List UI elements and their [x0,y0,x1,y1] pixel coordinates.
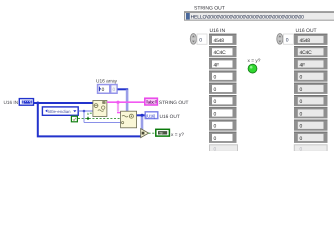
panel STRING OUT label [194,6,225,12]
svg-text:4C4C: 4C4C [214,50,227,56]
node junction enum wire [83,110,86,113]
terminal U16 OUT [145,112,158,119]
terminal STRING OUT [145,98,158,105]
svg-text:little-endian: little-endian [48,109,71,114]
svg-text:4F: 4F [300,62,306,68]
svg-text:4548: 4548 [300,38,311,44]
node U16 OUT label [160,114,180,120]
wire equal result (green dashed) [149,132,156,134]
node junction U16 IN wire [36,102,39,105]
boolean constant F [71,116,77,122]
svg-text:abc: abc [148,100,155,105]
node STRING OUT label [159,100,189,106]
wire U16 IN branch down to Equal y input [38,103,141,136]
svg-text:4F: 4F [214,62,220,68]
svg-text:0: 0 [214,99,217,105]
panel LED label x=y? [248,58,261,64]
svg-text:0: 0 [214,111,217,117]
svg-text:0: 0 [300,124,303,130]
enum constant little-endian [42,107,78,115]
op U1 Flatten To String [93,101,107,117]
svg-text:0: 0 [300,147,303,152]
panel U16 OUT index box [284,34,294,44]
wire boolean dashed [78,113,121,118]
svg-text:U16 IN: U16 IN [210,28,226,34]
svg-text:0: 0 [113,87,116,93]
wire branch down to Equal x input [141,116,144,130]
svg-text:0: 0 [199,37,202,43]
svg-text:4548: 4548 [214,38,225,44]
wire string branch down to Unflatten [117,103,121,113]
svg-text:U16 array: U16 array [96,78,118,84]
op U2 Unflatten From String [121,111,137,128]
svg-text:4C4C: 4C4C [300,50,313,56]
node junction boolean wire [87,117,89,119]
svg-text:0: 0 [214,124,217,130]
wire flattened string (pink) [107,101,145,103]
op Equal? [141,129,149,138]
panel U16 IN index spinner [190,34,196,45]
terminal U16 IN (array control, thick border) [19,99,33,106]
svg-text:0: 0 [300,111,303,117]
panel U16 IN index box [197,34,207,44]
node x=y? label [171,132,184,138]
svg-text:0: 0 [102,87,105,93]
node U16 IN label [4,100,19,105]
svg-text:STRING OUT: STRING OUT [194,6,225,12]
svg-text:HELLO\00\00\00\00\00\00\00\00\: HELLO\00\00\00\00\00\00\00\00\00\00\00\0… [191,14,305,20]
svg-text:0: 0 [300,99,303,105]
panel LED x=y? [248,64,257,73]
svg-text:0: 0 [214,136,217,142]
wire U16 array out (thick blue) [137,114,145,116]
svg-text:U16 OUT: U16 OUT [296,28,317,34]
terminal x=y? boolean [156,129,170,136]
svg-text:x = y?: x = y? [171,132,184,138]
svg-text:x = y?: x = y? [248,58,261,64]
panel STRING OUT indicator box [185,12,334,21]
wire U16 IN main (thick blue to Flatten) [34,102,93,104]
panel U16 IN array cells [209,34,238,153]
svg-text:0: 0 [286,37,289,43]
svg-text:0: 0 [300,136,303,142]
panel U16 IN label [210,28,226,34]
panel U16 OUT label [296,28,317,34]
svg-text:U16 OUT: U16 OUT [160,114,180,120]
svg-text:STRING OUT: STRING OUT [159,100,189,106]
svg-text:U16 IN: U16 IN [4,100,19,105]
node junction U16 out wire [141,114,144,117]
svg-text:0: 0 [300,75,303,81]
svg-text:[U16]: [U16] [146,114,154,119]
panel U16 OUT array cells [294,34,328,153]
wire U16 array type to Unflatten (thick blue) [118,89,129,111]
wire enum byte order (thin blue) [79,111,121,123]
svg-text:0: 0 [300,87,303,93]
svg-text:0: 0 [214,75,217,81]
panel U16 OUT index spinner [277,34,283,45]
constant U16 array (empty array, index + greyed element) [97,84,118,94]
node U16 array label [96,78,118,84]
svg-text:0: 0 [214,147,217,152]
node junction string wire [116,101,119,104]
svg-text:0: 0 [214,87,217,93]
